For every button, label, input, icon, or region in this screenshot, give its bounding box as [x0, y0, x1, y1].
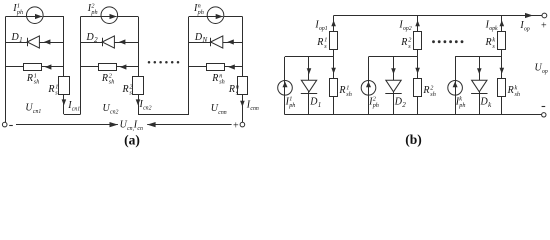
svg-text:R2s: R2s [122, 83, 133, 96]
svg-text:+: + [233, 120, 239, 131]
svg-text:R1s: R1s [47, 83, 58, 96]
svg-text:Rns: Rns [228, 83, 239, 96]
svg-text:R1s: R1s [316, 37, 327, 50]
svg-text:(b): (b) [405, 132, 422, 147]
svg-text:R2s: R2s [400, 37, 411, 50]
svg-text:(a): (a) [124, 133, 140, 148]
svg-text:+: + [541, 21, 547, 32]
svg-text:Rks: Rks [485, 37, 496, 50]
